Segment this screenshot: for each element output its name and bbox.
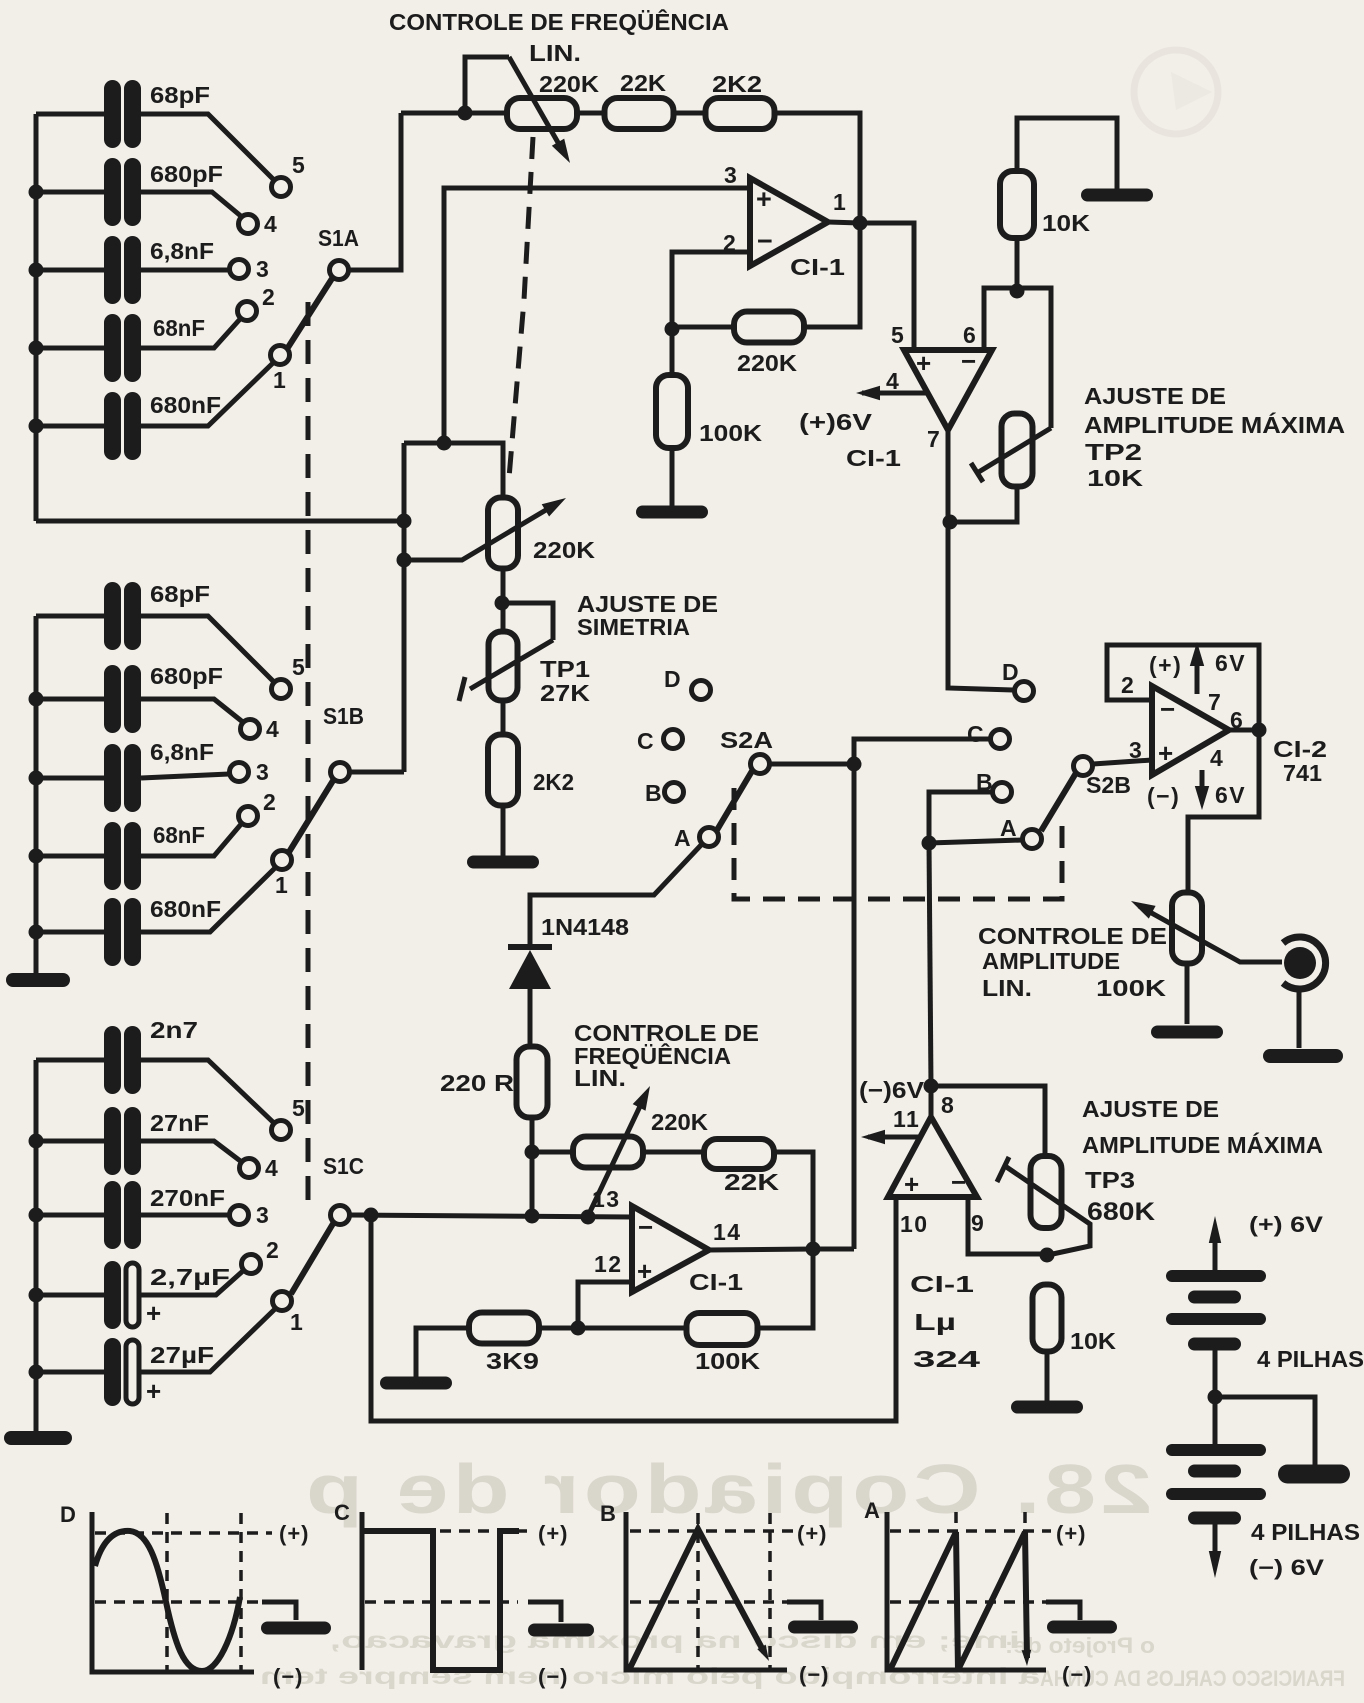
wire pot wiper return hook [465,57,509,113]
svg-text:680pF: 680pF [150,663,223,689]
switch S2A contact B [645,780,684,806]
svg-text:3: 3 [256,1202,270,1228]
node loop junction wiper [397,553,412,568]
svg-text:4: 4 [264,211,278,237]
wire pin2 node to 100K [670,329,675,375]
resistor 100K (U1a non-inv ref) [656,375,688,448]
label 2K2 (top) [712,71,762,97]
wire S1A common to top rail [348,113,401,270]
node op4 output junction [924,1079,939,1094]
wire pin3 input [444,188,750,443]
waveform B dashed levels [630,1513,793,1670]
label S1A [318,225,359,251]
label 2K2 (sym) [533,769,574,795]
svg-text:6V: 6V [1215,650,1246,676]
wire C node to op3 output rail [854,739,990,764]
wire bank3 cap4 to contact2 [141,1270,244,1295]
switch S1B contact 2 [239,789,278,826]
svg-text:68nF: 68nF [153,822,205,848]
svg-text:A: A [1000,815,1018,841]
label SIMETRIA [577,614,690,640]
wire CI-2 out down to pot [1188,730,1259,893]
svg-text:6V: 6V [1215,782,1246,808]
switch S1C contact 1 [273,1292,305,1336]
svg-text:4 PILHAS: 4 PILHAS [1251,1519,1360,1545]
wire 3K9 to ground [416,1328,469,1377]
label (-) waveform A [1062,1662,1093,1687]
wire output 7 down to D [948,430,1013,690]
wire CI-2 output [1229,728,1259,733]
label 741 [1283,760,1322,786]
capacitor 6,8nF (bank1) [104,236,141,304]
svg-text:AJUSTE DE: AJUSTE DE [1084,383,1226,409]
svg-text:6: 6 [963,322,977,348]
switch S1B contact 4 [241,716,281,742]
svg-text:4: 4 [886,368,900,394]
switch S2A contact C [637,728,683,754]
svg-text:4: 4 [1210,745,1224,771]
svg-text:CONTROLE DE FREQÜÊNCIA: CONTROLE DE FREQÜÊNCIA [389,8,729,35]
resistor 22K (top) [605,98,674,129]
svg-text:22K: 22K [724,1169,779,1195]
resistor 2K2 (sym chain) [488,735,518,806]
svg-text:CI-1: CI-1 [910,1271,974,1297]
node junction bank1 bus [29,341,44,356]
label 68nF (bank2) [153,822,205,848]
svg-text:AMPLITUDE MÁXIMA: AMPLITUDE MÁXIMA [1082,1131,1323,1158]
switch S1C contact 5 [272,1095,307,1140]
svg-text:3: 3 [256,256,270,282]
svg-text:(−): (−) [538,1664,569,1689]
svg-text:324: 324 [913,1346,980,1372]
wire pin2 input [672,252,750,329]
wire 10K bottom to junction [1015,238,1020,291]
capacitor 270nF (bank3) [104,1181,141,1249]
svg-text:270nF: 270nF [150,1185,225,1211]
ground (waveform C) [528,1602,594,1637]
node junction bank2 bus [29,771,44,786]
label 2n7 [150,1017,198,1043]
wire bank2 cap5 to contact1 [141,867,276,932]
label CI-2 [1273,736,1327,762]
svg-text:+: + [637,1256,652,1286]
svg-text:TP3: TP3 [1085,1167,1135,1193]
label pin 13 [592,1186,621,1212]
svg-text:−: − [951,1167,966,1197]
node junction bank2 bus [29,692,44,707]
svg-text:C: C [334,1500,350,1525]
wire bank3 cap1 to contact5 [141,1060,275,1124]
op-amp U1a CI-1 (pins 3,2,1) [750,178,828,266]
pin 11 power arrow [861,1130,919,1144]
label pin 9 [971,1210,985,1236]
resistor 10K (top right) [1000,171,1034,238]
label CI-1 (U1b) [846,445,901,471]
label pin 6 [963,322,977,348]
svg-text:C: C [637,728,655,754]
label FREQUENCIA (freq2) [574,1042,731,1069]
svg-text:68nF: 68nF [153,315,205,341]
label (-) waveform C [538,1664,569,1689]
label 6,8nF (bank2) [150,739,214,765]
label Lu (U1d) [914,1309,956,1335]
svg-text:D: D [1002,659,1020,685]
wire 220K to TP1 [501,569,506,632]
svg-text:2: 2 [1121,672,1135,698]
svg-text:4: 4 [265,1155,279,1181]
wire junction to TP2 wiper line [1017,288,1051,428]
svg-text:B: B [600,1501,616,1526]
node junction pin13 rail [525,1209,540,1224]
svg-text:S2A: S2A [720,727,773,753]
ground (3K9) [380,1377,452,1390]
label AJUSTE DE (TP2) [1084,383,1226,409]
wire pin9 [968,1197,1047,1254]
svg-text:A: A [864,1498,880,1523]
svg-text:3: 3 [724,162,738,188]
capacitor 27uF electrolytic (bank3) [104,1338,139,1406]
svg-text:5: 5 [891,322,905,348]
wire junction to pot [532,1150,573,1155]
label S1B [323,703,364,729]
wire op4 output up [929,1086,934,1117]
label + (2,7uF) [146,1298,161,1328]
label S2B [1086,772,1131,798]
waveform B axes [600,1501,787,1670]
node pin3 junction [437,436,452,451]
svg-text:4 PILHAS: 4 PILHAS [1257,1346,1364,1372]
wire S2A A-contact to diode rail [530,844,702,944]
wire 2K2 to op-amp output node [775,113,860,223]
svg-text:+: + [756,184,772,214]
wire bank3 row 27nF [36,1139,104,1144]
label pin 7 (CI-2) [1208,689,1222,715]
wire 10K to ground (op4) [1045,1352,1050,1401]
label CI-1 (U1c) [689,1269,743,1295]
svg-text:220 R: 220 R [440,1070,514,1096]
label CONTROLE DE (freq2) [574,1020,759,1046]
svg-text:B: B [645,780,663,806]
capacitor 68pF (bank1) [104,80,141,148]
label pin 2 (CI-2) [1121,672,1135,698]
label 680nF [150,392,221,418]
svg-text:2: 2 [262,284,276,310]
wire bus capacitor bank 3 [34,1060,39,1431]
wire 10K top to ground [1017,118,1117,190]
node junction top rail [458,106,473,121]
label S1C [323,1153,364,1179]
wire 22K down to output node [774,1152,813,1249]
100K pot wiper to jack [1131,901,1282,962]
label pin 5 [891,322,905,348]
label 27uF [150,1342,214,1368]
svg-text:2: 2 [263,789,277,815]
label 3K9 [486,1348,539,1374]
switch S2A contact A [674,825,719,851]
svg-text:CI-1: CI-1 [689,1269,743,1295]
wire bank1 row 680pF [36,190,104,195]
op-amp U1c CI-1 (pins 13,12,14) [632,1206,709,1292]
svg-text:S2B: S2B [1086,772,1131,798]
svg-text:5: 5 [292,654,306,680]
wire diode to 220R [528,988,533,1047]
waveform D sine trace [95,1531,240,1671]
label (+) waveform D [279,1521,310,1546]
svg-text:68pF: 68pF [150,82,210,108]
label pin 1 [833,189,847,215]
node op1 output junction [853,216,868,231]
wire bank2 row 68nF [36,854,104,859]
wire feedback left [672,325,734,330]
svg-text:−: − [1160,694,1175,724]
svg-text:2,7µF: 2,7µF [150,1264,230,1290]
wire B node down [929,792,992,843]
svg-text:SIMETRIA: SIMETRIA [577,614,690,640]
capacitor 6,8nF (bank2) [104,744,141,812]
wire bank1 cap5 to contact 1 [141,362,274,426]
switch S2B arm [1041,773,1076,831]
capacitor 680pF (bank2) [104,665,141,733]
svg-text:(−) 6V: (−) 6V [1249,1555,1324,1580]
label CI-1 (U1d) [910,1271,974,1297]
label (+) waveform C [538,1521,569,1546]
switch S1A contact 3 [230,256,271,282]
wire S2B common to pin3 (CI-2) [1093,760,1152,764]
wire bank1 bus to loop [36,519,404,524]
svg-text:13: 13 [592,1186,621,1212]
svg-text:CONTROLE DE: CONTROLE DE [978,923,1167,949]
svg-text:(+) 6V: (+) 6V [1249,1212,1323,1237]
svg-text:AJUSTE DE: AJUSTE DE [1082,1096,1219,1122]
label (-) supply [1147,783,1180,809]
wire bank2 cap2 to contact4 [141,699,244,723]
wire bank2 cap1 to contact5 [141,616,275,683]
wire loop top [404,443,503,498]
label pin 6 (CI-2) [1230,707,1244,733]
svg-text:+: + [146,1376,161,1406]
label 4 PILHAS (B1) [1257,1346,1364,1372]
ground (battery mid) [1278,1465,1350,1484]
wire junction down to op3 output [852,764,857,1249]
svg-text:AMPLITUDE: AMPLITUDE [982,948,1120,974]
label 68pF [150,82,210,108]
wire bank3 row 27µF [36,1370,104,1375]
switch S2A contact D [664,666,711,700]
resistor 10K (op4) [1033,1285,1062,1352]
svg-text:7: 7 [1208,689,1222,715]
svg-text:−: − [961,346,976,376]
svg-text:+: + [916,348,931,378]
svg-text:27nF: 27nF [150,1110,209,1136]
ground (waveform B) [787,1602,858,1634]
svg-text:6,8nF: 6,8nF [150,238,214,264]
ground (100K pot) [1151,1026,1223,1039]
svg-text:100K: 100K [1096,975,1166,1001]
svg-text:(−): (−) [1062,1662,1093,1687]
ground (2K2 chain) [467,856,539,869]
svg-text:(−): (−) [1147,783,1180,809]
label LIN. [529,40,581,66]
wire bank2 cap4 to contact2 [141,823,242,856]
node junction bank2 bus [29,849,44,864]
label 270nF [150,1185,225,1211]
node junction bank1 bus [29,185,44,200]
node junction bank1 bus [29,263,44,278]
svg-text:CI-1: CI-1 [790,254,845,280]
svg-text:(+): (+) [797,1521,828,1546]
label CONTROLE DE (amp) [978,923,1167,949]
node 220R junction [525,1145,540,1160]
svg-text:a interrompido pelo micro nem: a interrompido pelo micro nem sempre tem [260,1663,1040,1689]
TP2 wiper [971,428,1051,482]
svg-text:220K: 220K [533,537,595,563]
label + (27uF) [146,1376,161,1406]
svg-text:(+): (+) [1056,1521,1087,1546]
arrow (+)6V up [1190,642,1246,694]
wire A/B junction down to op4 output [929,843,931,1086]
wire bank1 row 68nF [36,346,104,351]
svg-text:S1B: S1B [323,703,364,729]
wire S2A common to junction [770,762,854,767]
wire bank3 cap5 to contact1 [141,1308,276,1372]
label 27nF [150,1110,209,1136]
label TP1 [540,656,590,682]
wire bank3 cap3 to contact3 [141,1213,229,1218]
node A (S2B input A) [1000,815,1042,849]
svg-text:(+): (+) [538,1521,569,1546]
label 100K (U1c) [695,1348,760,1374]
node junction bank3 bus [29,1208,44,1223]
node junction bank3 bus [29,1365,44,1380]
wire battery junction to ground [1215,1397,1315,1465]
ground (10K op4) [1011,1401,1083,1414]
svg-text:(−): (−) [799,1662,830,1687]
node op3 output junction [806,1242,821,1257]
switch S2A common pole [751,755,770,774]
waveform D dashed levels [95,1513,272,1672]
svg-text:220K: 220K [651,1109,708,1135]
label pin 4 (CI-2) [1210,745,1224,771]
svg-text:680pF: 680pF [150,161,223,187]
svg-text:(+)6V: (+)6V [799,409,873,435]
label pin 10 [900,1211,929,1237]
wire pot to 22K [643,1150,704,1155]
node junction bank2 bus [29,925,44,940]
label (+) waveform B [797,1521,828,1546]
wire op4 out to TP3 [931,1086,1045,1156]
svg-text:LIN.: LIN. [574,1065,626,1091]
svg-text:(−): (−) [273,1664,304,1689]
waveform C axis [334,1500,362,1670]
label (+)6V (U1b) [799,409,873,435]
svg-text:1: 1 [833,189,847,215]
wire 100K to ground [670,448,675,506]
svg-text:1N4148: 1N4148 [541,914,629,940]
label 680pF [150,161,223,187]
switch S1C contact 2 [242,1237,281,1274]
wire bank3 row 2,7µF [36,1293,104,1298]
svg-text:1: 1 [275,872,289,898]
label 220K feedback [737,350,797,376]
svg-text:+: + [904,1169,919,1199]
gang dashed link pots [509,137,533,478]
label (-) waveform B [799,1662,830,1687]
svg-text:680K: 680K [1087,1198,1155,1226]
svg-text:D: D [60,1502,76,1527]
resistor 100K (U1c) [687,1313,758,1345]
wire junction down to pin13 rail [530,1152,535,1216]
label (+) waveform A [1056,1521,1087,1546]
label 220K (sym) [533,537,595,563]
op-amp U1d CI-1 Lu324 (pins 8,9,10,11) [888,1117,977,1199]
svg-text:5: 5 [292,1095,306,1121]
label pin 2 [723,230,737,256]
node junction bank1 bus [29,419,44,434]
wire bank3 cap2 to contact4 [141,1141,243,1163]
svg-text:C: C [967,721,985,747]
wire pin12 [578,1282,632,1328]
waveform A axes [864,1498,1046,1670]
pot wiper arrow (lower 220K) [588,1086,650,1216]
waveform D axes [60,1502,254,1672]
wire bank1 row 68pF [36,112,104,117]
capacitor 68pF (bank2) [104,582,141,650]
capacitor 680nF (bank2) [104,898,141,966]
label 100K (U1a) [699,420,762,446]
node S1C common junction [364,1208,379,1223]
label 10K (op4) [1070,1328,1116,1354]
label (+) supply [1149,652,1182,678]
wire CI-2 feedback loop [1107,645,1259,730]
node B (S2B input B) [976,769,1012,802]
output jack J1 [1283,937,1326,989]
svg-text:220K: 220K [737,350,797,376]
svg-text:22K: 22K [620,70,666,96]
potentiometer 220K (symmetry chain) [488,498,518,569]
svg-text:(+): (+) [1149,652,1182,678]
svg-text:680nF: 680nF [150,392,221,418]
ground (waveform A) [1046,1602,1117,1634]
svg-text:Lµ: Lµ [914,1309,956,1335]
svg-text:11: 11 [893,1106,920,1132]
svg-text:220K: 220K [539,71,599,97]
label pin 8 [941,1092,955,1118]
label 680nF (bank2) [150,896,221,922]
switch S1C contact 4 [240,1155,280,1181]
label 4 PILHAS (B2) [1251,1519,1360,1545]
svg-text:−: − [757,226,773,256]
svg-text:1: 1 [290,1309,304,1335]
potentiometer 100K amplitude [1172,893,1202,964]
svg-text:AMPLITUDE MÁXIMA: AMPLITUDE MÁXIMA [1084,411,1345,438]
capacitor 680pF (bank1) [104,158,141,226]
wire op3 output [709,1249,813,1250]
label (-)6V (op4) [859,1077,925,1103]
node junction bank3 bus [29,1134,44,1149]
arrow (-)6V down [1195,770,1246,810]
svg-text:14: 14 [713,1219,742,1245]
label 68nF [153,315,205,341]
label 10K (top right) [1042,210,1090,236]
svg-text:7: 7 [927,426,941,452]
wire TP2 bottom to output 7 [950,486,1017,522]
switch S1C arm [291,1222,334,1294]
battery B2 (-)6V arrow [1209,1518,1221,1578]
label 324 (U1d) [913,1346,980,1372]
label 220K (top pot) [539,71,599,97]
svg-text:12: 12 [594,1251,623,1277]
switch S1C common pole [331,1206,350,1225]
